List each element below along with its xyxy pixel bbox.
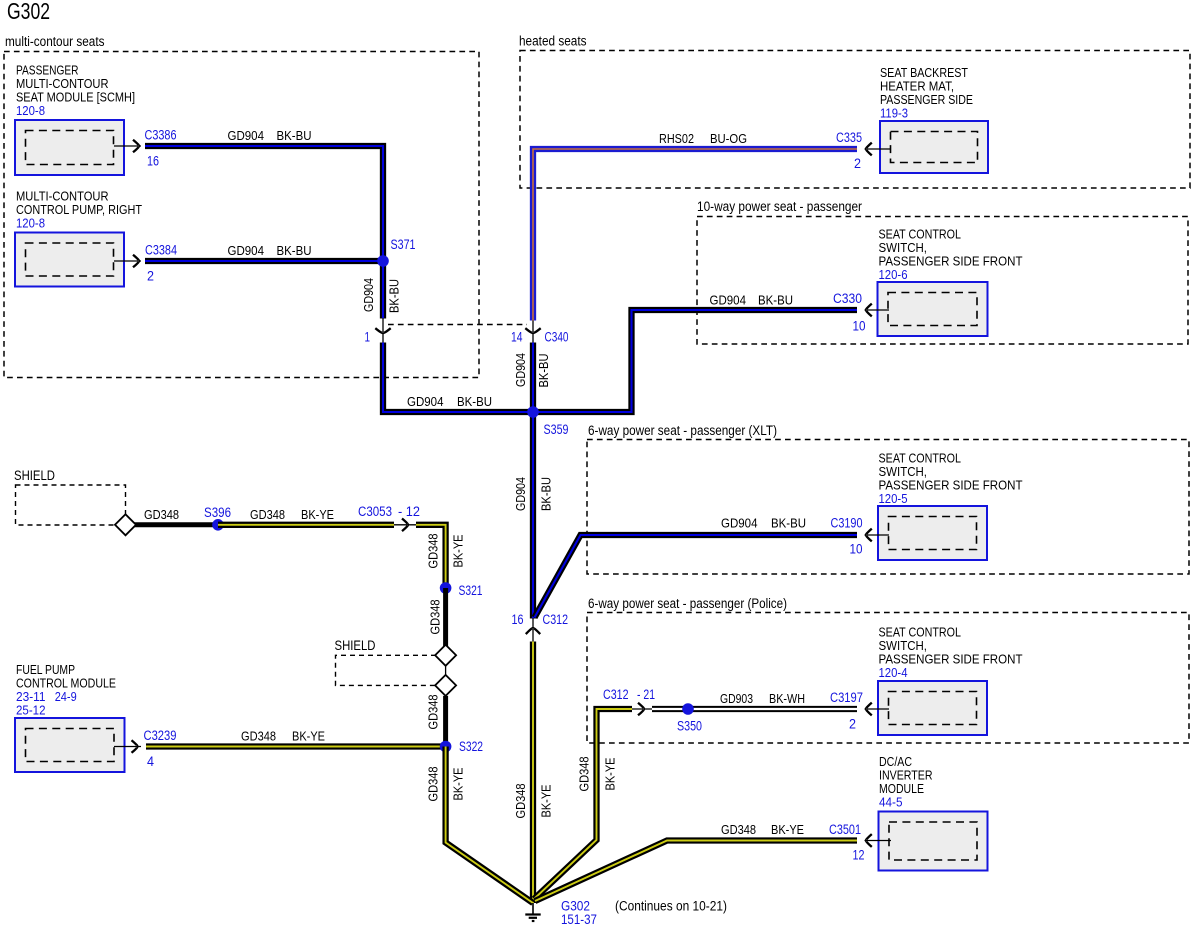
shield diamond 3 xyxy=(435,675,456,696)
svg-text:119-3: 119-3 xyxy=(880,106,908,121)
connector C3190 pin 10 arrow xyxy=(831,516,872,557)
svg-text:GD348: GD348 xyxy=(426,767,441,802)
svg-text:GD904: GD904 xyxy=(710,293,747,308)
connector C335 pin 2 arrow xyxy=(836,130,872,171)
connector C3501 pin 12 arrow xyxy=(829,822,872,863)
connector C330 pin 10 arrow xyxy=(833,291,872,334)
splice S396 xyxy=(204,505,231,531)
svg-text:6-way power seat - passenger (: 6-way power seat - passenger (XLT) xyxy=(588,423,777,438)
wire GD348 BK-YE C3239 to S322 xyxy=(146,729,446,747)
svg-text:C3384: C3384 xyxy=(145,243,177,258)
svg-text:multi-contour seats: multi-contour seats xyxy=(5,34,105,49)
wire GD904 BK-BU trunk C340 to C312 xyxy=(530,343,536,619)
component DC/AC INVERTER MODULE xyxy=(865,754,988,871)
harness box 6-way power seat - passenger (Police) xyxy=(587,596,1189,743)
wire GD348 BK-YE police branch ground to C312-21 xyxy=(534,709,632,899)
wire GD348 BK-YE S396 to C3053 xyxy=(218,507,394,525)
svg-text:GD904: GD904 xyxy=(228,243,265,258)
svg-text:10: 10 xyxy=(850,542,863,557)
svg-text:C340: C340 xyxy=(545,330,569,345)
svg-text:BK-BU: BK-BU xyxy=(277,128,312,143)
svg-text:GD348: GD348 xyxy=(426,695,441,730)
svg-text:C3190: C3190 xyxy=(831,516,863,531)
svg-text:BK-YE: BK-YE xyxy=(301,507,334,522)
svg-text:44-5: 44-5 xyxy=(879,795,903,810)
svg-text:120-4: 120-4 xyxy=(879,665,908,680)
wire GD903 BK-WH C312-21 to C3197 xyxy=(652,691,857,709)
component U1 PASSENGER MULTI-CONTOUR SEAT MODULE xyxy=(15,63,141,176)
splice S322 xyxy=(440,739,483,754)
component SEAT CONTROL SWITCH 120-6 xyxy=(865,227,1023,337)
svg-text:14: 14 xyxy=(511,330,523,345)
svg-text:151-37: 151-37 xyxy=(561,912,597,927)
svg-text:25-12: 25-12 xyxy=(16,703,46,718)
svg-text:GD348: GD348 xyxy=(426,534,441,569)
svg-text:GD348: GD348 xyxy=(241,729,276,744)
svg-text:(Continues on 10-21): (Continues on 10-21) xyxy=(615,899,727,914)
svg-text:BU-OG: BU-OG xyxy=(710,131,747,146)
svg-text:S321: S321 xyxy=(459,583,483,598)
svg-text:GD904: GD904 xyxy=(513,477,528,511)
svg-text:GD348: GD348 xyxy=(721,822,756,837)
svg-text:120-8: 120-8 xyxy=(16,216,45,231)
connector C312 pin 21 arrow xyxy=(603,687,655,715)
svg-text:BK-YE: BK-YE xyxy=(603,757,618,790)
connector C3384 pin 2 arrow xyxy=(133,243,177,284)
svg-text:GD904: GD904 xyxy=(228,128,265,143)
svg-text:BK-BU: BK-BU xyxy=(457,394,492,409)
harness box 6-way power seat - passenger (XLT) xyxy=(587,423,1189,574)
svg-text:GD348: GD348 xyxy=(513,784,528,819)
svg-text:2: 2 xyxy=(849,717,856,732)
svg-text:BK-BU: BK-BU xyxy=(539,477,554,511)
svg-text:C330: C330 xyxy=(833,291,862,306)
svg-text:GD904: GD904 xyxy=(407,394,444,409)
svg-text:SHIELD: SHIELD xyxy=(335,638,376,653)
harness box multi-contour seats xyxy=(4,34,479,378)
svg-text:C312: C312 xyxy=(543,612,569,627)
svg-text:BK-BU: BK-BU xyxy=(771,516,806,531)
svg-text:BK-BU: BK-BU xyxy=(758,293,793,308)
wire GD904 BK-BU C3386 to corner to S371 xyxy=(145,128,383,319)
svg-text:2: 2 xyxy=(147,269,154,284)
component SEAT CONTROL SWITCH 120-4 xyxy=(865,625,1023,736)
svg-text:- 12: - 12 xyxy=(398,504,420,519)
wire GD348 BK-YE S322 down to ground xyxy=(446,747,533,904)
svg-text:GD348: GD348 xyxy=(144,507,179,522)
svg-text:GD904: GD904 xyxy=(361,278,376,312)
svg-text:GD904: GD904 xyxy=(721,516,758,531)
svg-text:4: 4 xyxy=(147,754,154,769)
svg-text:10-way power seat - passenger: 10-way power seat - passenger xyxy=(697,199,862,214)
svg-text:12: 12 xyxy=(853,848,865,863)
node C340 connector boundary dashed link xyxy=(388,324,527,326)
splice S371 xyxy=(377,237,415,267)
component SEAT CONTROL SWITCH 120-5 xyxy=(865,451,1023,561)
svg-text:heated seats: heated seats xyxy=(519,34,587,49)
svg-text:S322: S322 xyxy=(459,739,483,754)
connector C3197 pin 2 arrow xyxy=(830,690,872,732)
wire GD348 drain diamond 3 to S322 xyxy=(443,696,448,747)
svg-text:C335: C335 xyxy=(836,130,862,145)
svg-text:24-9: 24-9 xyxy=(55,689,77,704)
svg-text:120-6: 120-6 xyxy=(879,267,908,282)
svg-text:C3053: C3053 xyxy=(358,504,392,519)
wire GD904 BK-BU C3384 to S371 xyxy=(145,243,386,261)
svg-text:GD348: GD348 xyxy=(577,757,592,792)
wire GD904 BK-BU C3190 diagonal to C312 xyxy=(535,516,858,618)
connector C3386 pin 16 arrow xyxy=(133,128,177,169)
svg-text:BK-YE: BK-YE xyxy=(539,784,554,817)
svg-text:S350: S350 xyxy=(677,719,702,734)
svg-text:C3386: C3386 xyxy=(145,128,177,143)
svg-text:S371: S371 xyxy=(391,237,416,252)
svg-text:BK-BU: BK-BU xyxy=(387,279,402,313)
wire GD348 drain S321 to diamond 2 xyxy=(443,588,448,646)
svg-text:RHS02: RHS02 xyxy=(659,131,694,146)
shield diamond 1 xyxy=(115,514,136,535)
svg-text:C3501: C3501 xyxy=(829,822,861,837)
svg-text:S396: S396 xyxy=(204,505,231,520)
svg-text:1: 1 xyxy=(365,330,371,345)
svg-text:SHIELD: SHIELD xyxy=(14,468,55,483)
connector C3239 pin 4 arrow xyxy=(132,728,177,769)
connector C340 pin 14 arrow xyxy=(511,321,569,345)
wire GD348 BK-YE C3053 corner to S321 xyxy=(416,525,446,588)
component SEAT BACKREST HEATER MAT PASSENGER SIDE xyxy=(865,65,989,173)
svg-text:GD348: GD348 xyxy=(250,507,285,522)
svg-text:2: 2 xyxy=(854,156,861,171)
wire GD904 BK-BU pin1 to S359 to C330 xyxy=(383,293,857,413)
svg-text:BK-YE: BK-YE xyxy=(451,767,466,800)
svg-text:BK-WH: BK-WH xyxy=(769,691,805,706)
svg-text:GD348: GD348 xyxy=(428,600,443,635)
shield diamond 2 xyxy=(435,645,456,666)
svg-text:C312: C312 xyxy=(603,687,629,702)
svg-text:GD903: GD903 xyxy=(720,691,753,706)
svg-text:BK-BU: BK-BU xyxy=(277,243,312,258)
harness box heated seats xyxy=(519,34,1190,189)
node G302 151-37 label xyxy=(561,899,597,927)
splice S359 xyxy=(527,406,568,437)
wire RHS02 BU-OG C335 to C340 xyxy=(533,131,857,321)
shield box 1 xyxy=(14,468,126,525)
svg-text:BK-YE: BK-YE xyxy=(451,534,466,567)
svg-text:BK-YE: BK-YE xyxy=(292,729,325,744)
svg-text:16: 16 xyxy=(512,612,524,627)
harness box 10-way power seat - passenger xyxy=(697,199,1188,344)
svg-text:BK-YE: BK-YE xyxy=(771,822,804,837)
svg-text:G302: G302 xyxy=(7,0,50,24)
wire link between diamonds xyxy=(445,666,447,675)
connector C312 pin 16 arrow xyxy=(512,612,569,642)
component U2 MULTI-CONTOUR CONTROL PUMP RIGHT xyxy=(15,189,142,287)
shield box 2 xyxy=(335,638,446,685)
splice S350 xyxy=(677,703,702,733)
svg-text:120-5: 120-5 xyxy=(879,491,908,506)
component FUEL PUMP CONTROL MODULE xyxy=(15,662,141,772)
splice S321 xyxy=(440,582,483,598)
ground G302 symbol xyxy=(525,903,540,921)
svg-text:C3197: C3197 xyxy=(830,690,863,705)
svg-text:120-8: 120-8 xyxy=(16,103,45,118)
svg-text:C3239: C3239 xyxy=(144,728,177,743)
svg-text:6-way power seat - passenger (: 6-way power seat - passenger (Police) xyxy=(588,596,787,611)
svg-text:- 21: - 21 xyxy=(637,687,655,702)
svg-text:10: 10 xyxy=(853,319,866,334)
wire GD348 drain diamond to S396 xyxy=(130,522,218,527)
svg-text:BK-BU: BK-BU xyxy=(536,354,551,388)
svg-text:16: 16 xyxy=(147,154,159,169)
svg-text:GD904: GD904 xyxy=(513,353,528,387)
wire GD348 BK-YE trunk C312 to ground xyxy=(530,642,536,904)
connector C340 pin 1 arrow xyxy=(365,318,391,345)
svg-text:S359: S359 xyxy=(544,422,569,437)
connector C3053 pin 12 arrow xyxy=(358,504,420,531)
wire GD348 BK-YE C3501 to ground xyxy=(535,822,857,901)
